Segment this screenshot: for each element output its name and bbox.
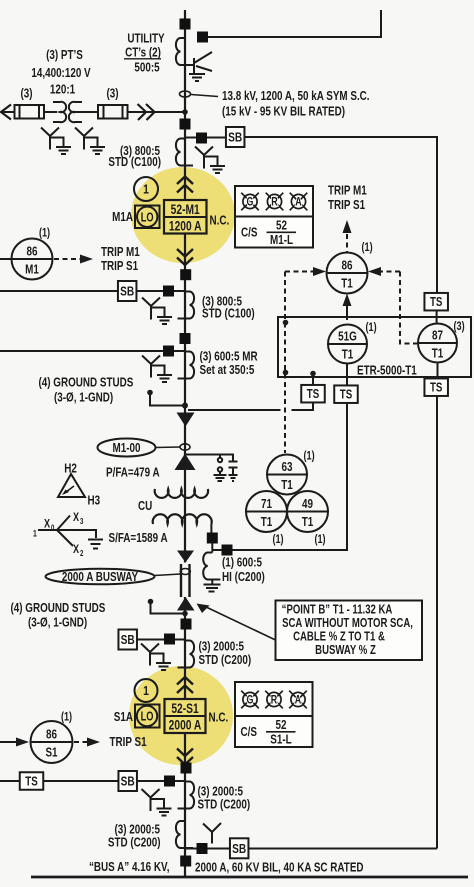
svg-text:(3) 2000:5: (3) 2000:5 (198, 785, 244, 799)
svg-text:(3): (3) (454, 320, 466, 334)
svg-text:A: A (295, 195, 302, 209)
node: CT circuit junction (182, 403, 188, 409)
svg-text:51G: 51G (338, 330, 357, 344)
node: dot on ETR bottom (283, 370, 289, 376)
node: junction (182, 611, 188, 617)
ground: utility CT secondary (185, 52, 212, 81)
lamp R (266, 193, 284, 211)
wire: SB5 to right riser (249, 848, 438, 850)
svg-text:(3) 600:5 MR: (3) 600:5 MR (200, 350, 259, 364)
main bus wire (13.8 kV vertical) (184, 10, 186, 876)
label: 2000 A BUSWAY oval (46, 569, 181, 585)
ground: CT secondary (142, 789, 172, 816)
breaker 52-S1 drawout chevrons top (177, 677, 193, 685)
svg-text:HI (C200): HI (C200) (222, 571, 265, 585)
svg-text:P/FA=479 A: P/FA=479 A (106, 466, 160, 480)
busway bars (181, 564, 190, 597)
svg-text:1: 1 (143, 684, 149, 698)
drawout triangle up from busway (177, 597, 195, 611)
svg-text:(3) 2000:5: (3) 2000:5 (114, 823, 160, 837)
label: M1-00 oval (98, 439, 180, 457)
relay 86/S1 (31, 710, 73, 763)
drawout contact triangle down (177, 413, 195, 427)
node: bus bottom stab (180, 856, 191, 867)
svg-text:“BUS A” 4.16 KV,: “BUS A” 4.16 KV, (89, 861, 169, 875)
svg-text:1200 A: 1200 A (169, 218, 202, 234)
arrow: dashed into 86/T1 right (368, 267, 400, 276)
svg-text:TRIP S1: TRIP S1 (110, 736, 148, 750)
wire: ground studs pointer lower (148, 599, 184, 614)
svg-text:86: 86 (46, 728, 57, 742)
wire: dashed 87 to 86/T1 (400, 272, 417, 344)
node: dot on ETR top (283, 320, 289, 326)
svg-text:TRIP M1: TRIP M1 (101, 246, 140, 260)
svg-text:(1): (1) (366, 321, 378, 335)
node: busway stab ellipse (180, 569, 190, 575)
wire: SB1 tap (185, 137, 226, 139)
svg-text:(1) 600:5: (1) 600:5 (222, 556, 263, 570)
node: neutral stab (207, 533, 218, 544)
label: (3) 2000:5 STD (C200) (199, 640, 252, 667)
lamp G lower (241, 691, 259, 709)
svg-text:M1A: M1A (112, 211, 133, 225)
breaker 52-S1 drawout chevrons bottom (177, 749, 193, 757)
lamp A (290, 193, 308, 211)
svg-text:TRIP S1: TRIP S1 (101, 260, 139, 274)
relay 71/T1 (246, 491, 287, 546)
label: (4) GROUND STUDS upper (39, 376, 134, 405)
wire: PT feeder (1, 111, 185, 113)
lockout LO M1 (135, 206, 160, 229)
label: (3) 2000:5 STD (C200) left (108, 823, 161, 850)
svg-text:“POINT B” T1 - 11.32 KA: “POINT B” T1 - 11.32 KA (282, 603, 393, 617)
node: SB3 stab (164, 634, 175, 645)
node: utility tap (197, 32, 208, 43)
svg-text:M1-00: M1-00 (113, 442, 141, 456)
SB5 box (230, 838, 249, 858)
wire: into 86/M1 (0, 258, 12, 260)
relay 63/T1 (267, 449, 315, 494)
arrow: 86/M1 trip output (54, 255, 93, 264)
svg-text:(1): (1) (304, 449, 316, 463)
wire: SB5 line (185, 848, 230, 850)
wire: neutral (211, 543, 213, 553)
svg-text:T1: T1 (261, 516, 273, 530)
lockout LO S1 (135, 705, 160, 728)
svg-text:S1-L: S1-L (270, 733, 291, 747)
svg-text:M1: M1 (25, 263, 39, 277)
svg-text:STD (C200): STD (C200) (108, 836, 161, 850)
svg-text:(1): (1) (362, 241, 374, 255)
drawout contact triangle up (175, 454, 196, 471)
wire: 87 riser to bus A (436, 396, 438, 849)
CT (3) 800:5 upper (176, 139, 193, 166)
svg-text:M1-L: M1-L (270, 234, 293, 248)
label: TRIP M1 TRIP S1 left (101, 246, 140, 274)
svg-text:CABLE % Z TO T1 &: CABLE % Z TO T1 & (293, 630, 385, 644)
node: SB4 stab (164, 776, 175, 787)
node: stab below 52-S1 (181, 763, 192, 774)
bus bar BUS A (31, 876, 468, 879)
svg-text:(3) PT’S: (3) PT’S (46, 49, 83, 63)
CT (3) 2000:5 bottom (176, 821, 193, 848)
svg-text:X: X (73, 511, 79, 525)
svg-text:UTILITY: UTILITY (127, 32, 165, 46)
device circle (1) (134, 177, 158, 201)
relay 51G/T1 (328, 321, 377, 364)
label: H2 delta H3 (58, 462, 100, 508)
label: TRIP M1 TRIP S1 right (328, 184, 367, 212)
surge arrester and capacitor (186, 455, 238, 482)
svg-text:1: 1 (33, 529, 37, 539)
transformer T1 primary winding (155, 489, 208, 498)
label: POINT B text box (276, 601, 423, 661)
svg-text:52-M1: 52-M1 (171, 202, 200, 218)
arrow: into 86/S1 (0, 738, 29, 747)
svg-text:ETR-5000-T1: ETR-5000-T1 (357, 364, 417, 378)
svg-text:(1): (1) (272, 533, 284, 547)
label: (4) GROUND STUDS lower (11, 602, 106, 630)
svg-text:STD (C200): STD (C200) (199, 654, 252, 668)
svg-text:STD (C100): STD (C100) (108, 156, 161, 170)
svg-text:120:1: 120:1 (50, 83, 76, 97)
svg-text:71: 71 (261, 498, 272, 512)
svg-text:LO: LO (141, 211, 154, 225)
svg-text:N.C.: N.C. (209, 711, 229, 725)
relay 86/T1 (327, 253, 368, 294)
label: (3) 800:5 STD (C100) left (108, 145, 161, 170)
svg-text:52: 52 (276, 219, 287, 233)
svg-text:500:5: 500:5 (134, 61, 160, 75)
svg-text:T1: T1 (342, 348, 354, 362)
wye: CT secondary ungrounded (203, 823, 221, 844)
CT utility 500:5 (176, 38, 193, 65)
arrow: incoming left (1, 105, 11, 120)
SB4 box (118, 771, 137, 791)
svg-text:R: R (271, 195, 278, 209)
ground: transformer neutral (204, 580, 221, 592)
svg-text:T1: T1 (281, 479, 293, 493)
svg-text:86: 86 (342, 259, 353, 273)
ground: PT secondary wye 1 (41, 128, 71, 155)
svg-text:(1): (1) (39, 226, 51, 240)
svg-text:14,400:120 V: 14,400:120 V (31, 67, 91, 81)
CT (3) 800:5 lower (178, 292, 195, 319)
svg-text:S/FA=1589 A: S/FA=1589 A (109, 532, 169, 546)
svg-text:T1: T1 (341, 277, 353, 291)
arrow: POINT B callout (197, 604, 276, 641)
svg-text:C/S: C/S (241, 226, 258, 240)
SB3 box (118, 630, 137, 650)
node: PT tap junction (182, 109, 188, 115)
svg-text:X: X (44, 517, 50, 531)
svg-text:2000 A, 60 KV BIL, 40 KA SC RA: 2000 A, 60 KV BIL, 40 KA SC RATED (195, 861, 364, 875)
svg-text:(3) 2000:5: (3) 2000:5 (199, 640, 245, 654)
node: stab below breaker M1 (180, 269, 191, 280)
svg-text:52-S1: 52-S1 (171, 701, 199, 717)
wire: SB3 line (137, 639, 185, 641)
wire: ground studs pointer (147, 390, 184, 406)
node: SB1 stab (196, 133, 207, 144)
label: (3) PT'S 14,400:120 V (20, 49, 118, 101)
svg-text:R: R (271, 693, 278, 707)
svg-text:52: 52 (276, 719, 287, 733)
label: (3) 800:5 STD (C100) right (202, 295, 255, 321)
svg-text:CT’s (2): CT’s (2) (125, 46, 161, 60)
arrow: drawout >> (138, 104, 155, 120)
wire: top elbow to utility (202, 10, 381, 37)
svg-text:G: G (247, 693, 254, 707)
wire: callout to rating label (191, 95, 218, 97)
svg-text:SCA WITHOUT MOTOR SCA,: SCA WITHOUT MOTOR SCA, (282, 617, 413, 631)
svg-text:S1: S1 (45, 746, 58, 760)
node: bus top connection (180, 19, 191, 30)
relay box ETR-5000-T1 (278, 317, 471, 378)
wire: SB2 line (0, 290, 185, 292)
svg-text:G: G (247, 195, 254, 209)
TS box below 87 (424, 378, 448, 396)
lamp G (241, 193, 259, 211)
svg-text:(1): (1) (61, 710, 73, 724)
node: stab (180, 333, 191, 344)
relay 86/M1 (12, 226, 53, 279)
panel: G R A pilot lights upper (235, 186, 313, 248)
svg-text:T1: T1 (302, 516, 314, 530)
node: metering stab (163, 346, 174, 357)
transformer T1 secondary winding (153, 514, 212, 524)
fuse F2 (98, 105, 128, 119)
svg-text:3: 3 (80, 517, 83, 526)
svg-text:49: 49 (302, 498, 313, 512)
TS box below 51G (334, 385, 358, 403)
label: C/S 52 M1-L (241, 219, 296, 247)
CT (3) 600:5 MR (178, 352, 195, 379)
CT (1) 600:5 HI neutral (203, 553, 220, 580)
neutral riser with CT (210, 524, 212, 533)
node: drawout stab ellipse (180, 444, 190, 450)
svg-text:TRIP M1: TRIP M1 (328, 184, 367, 198)
node: metering point ellipse (180, 91, 191, 97)
lamp R lower (265, 691, 283, 709)
breaker 52-M1 drawout chevrons bottom (177, 249, 193, 257)
ground: CT secondary (142, 298, 172, 325)
label: UTILITY CT's (2) 500:5 (124, 32, 165, 75)
svg-text:1: 1 (143, 183, 149, 197)
svg-text:X: X (73, 543, 79, 557)
svg-text:86: 86 (27, 245, 38, 259)
TS box CT test (301, 385, 325, 403)
svg-text:63: 63 (282, 461, 293, 475)
arrow: 86/T1 trip up (343, 220, 352, 253)
SB2 box (118, 281, 137, 301)
label: secondary wye X0 X2 X3 (33, 511, 103, 558)
relay 87/T1 (418, 320, 465, 363)
label: C/S 52 S1-L (241, 719, 296, 747)
panel: G R A pilot lights lower (235, 682, 313, 747)
svg-text:(4) GROUND STUDS: (4) GROUND STUDS (39, 376, 134, 390)
CT (3) 2000:5 upper (178, 641, 195, 668)
wire: CT circuit to TS (188, 403, 313, 411)
wire: TS/SB4 line (0, 780, 185, 782)
drawout triangle down to busway (177, 551, 194, 563)
breaker 52-M1 drawout chevrons top (177, 177, 193, 185)
node: 51G circuit stab (222, 545, 233, 556)
wire: 87 to TS below (437, 363, 439, 379)
node: SB5 stab (197, 843, 208, 854)
svg-text:2000 A BUSWAY: 2000 A BUSWAY (62, 571, 138, 585)
wire: 51G circuit (212, 403, 347, 550)
svg-text:T1: T1 (432, 347, 444, 361)
transformer PT (3) 14400:120 (53, 102, 82, 122)
highlight: yellow circle M1 (131, 167, 235, 263)
svg-text:TRIP S1: TRIP S1 (328, 199, 366, 213)
ground: CT 800:5 secondary (195, 147, 225, 174)
svg-text:(3-Ø, 1-GND): (3-Ø, 1-GND) (28, 616, 87, 630)
arrow: dashed into 86/T1 left (285, 267, 326, 276)
label: 13.8 kV rating (222, 90, 370, 119)
wire: TS to 87 (436, 311, 438, 325)
breaker 52-M1 box (164, 200, 207, 234)
relay 49/T1 (287, 491, 328, 546)
svg-text:0: 0 (51, 524, 54, 533)
svg-text:(15 kV - 95 KV BIL RATED): (15 kV - 95 KV BIL RATED) (222, 105, 345, 119)
svg-text:(3): (3) (106, 87, 118, 101)
TS box above 87 (424, 293, 448, 311)
wire: 51G to TS (346, 364, 348, 386)
wire: metering line (0, 350, 185, 352)
svg-text:(3): (3) (20, 87, 32, 101)
ground: PT secondary wye 2 (75, 128, 105, 155)
svg-text:BUSWAY % Z: BUSWAY % Z (315, 644, 376, 658)
ground: CT secondary (142, 356, 172, 383)
fuse F1 (15, 105, 45, 119)
CT (3) 2000:5 mid (178, 782, 195, 809)
svg-text:87: 87 (432, 329, 443, 343)
svg-text:C/S: C/S (241, 726, 258, 740)
svg-text:(3-Ø, 1-GND): (3-Ø, 1-GND) (54, 391, 113, 405)
arrow: 51G to 86/T1 (343, 294, 352, 321)
lamp A lower (289, 691, 307, 709)
label: (3) 2000:5 STD (C200) right (198, 785, 251, 812)
svg-text:H3: H3 (88, 494, 101, 508)
node: stab (181, 619, 192, 630)
ground: CT secondary (141, 644, 171, 671)
label: (1) 600:5 HI (C200) (222, 556, 265, 584)
node: disconnect stab (180, 119, 191, 130)
label: (3) 600:5 MR Set at 350:5 (200, 350, 259, 377)
svg-text:2: 2 (80, 549, 83, 558)
device circle (1) lower (135, 679, 158, 702)
svg-text:(4) GROUND STUDS: (4) GROUND STUDS (11, 602, 106, 616)
svg-text:CU: CU (138, 500, 152, 514)
highlight: yellow circle S1 (129, 666, 233, 765)
node: dot on ETR bottom edge for CT test (310, 371, 316, 377)
wire: dashed 63 to 86/T1 (284, 272, 286, 454)
svg-text:STD (C200): STD (C200) (198, 798, 251, 812)
arrow: 86/S1 trip output (74, 738, 100, 747)
node: SB2 stab (163, 286, 174, 297)
svg-text:STD (C100): STD (C100) (202, 307, 255, 321)
svg-text:(1): (1) (314, 533, 326, 547)
svg-text:A: A (295, 693, 302, 707)
label: BUS A ratings (89, 861, 364, 875)
svg-text:S1A: S1A (114, 711, 134, 725)
svg-text:LO: LO (141, 710, 154, 724)
TS box left (20, 772, 44, 790)
breaker 52-S1 box (165, 699, 206, 733)
wire: SB1 to right riser (245, 137, 438, 293)
wire: ETR to CT test switch (312, 374, 314, 386)
svg-text:2000 A: 2000 A (169, 717, 202, 733)
svg-text:N.C.: N.C. (210, 214, 230, 228)
svg-text:13.8 kV, 1200 A, 50 kA SYM S.C: 13.8 kV, 1200 A, 50 kA SYM S.C. (222, 90, 370, 104)
svg-text:Set at 350:5: Set at 350:5 (200, 364, 255, 378)
SB1 box (226, 127, 245, 147)
